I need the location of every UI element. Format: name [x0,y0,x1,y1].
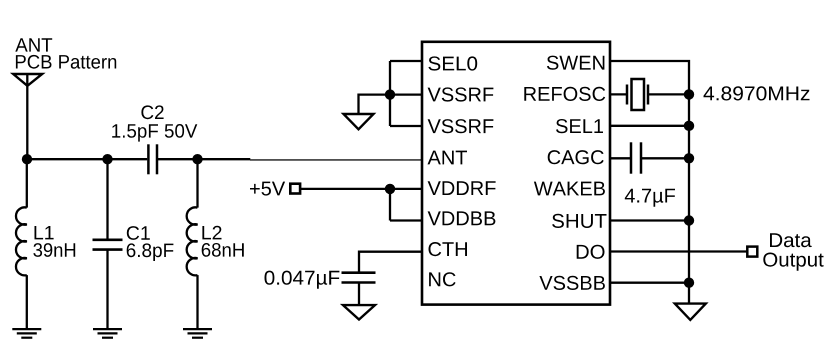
capacitor 0.047uF plates [342,273,376,283]
pin label VSSRF [428,119,494,133]
pin label ANT [428,151,468,165]
inductor L1 [16,159,27,330]
ground (earth) under L1 [12,329,41,338]
wire: VSSBB stub [610,282,689,284]
label +5V [250,182,285,196]
node bus SEL1 [684,121,694,131]
pin label SHUT [552,214,606,228]
wire: CAGC stub to cap [610,157,631,159]
label 1.5pF 50V [112,124,197,142]
pin label CAGC [548,150,604,164]
wire: main horizontal node (ANT net) [27,158,147,160]
pin label SEL0 [428,56,477,70]
node ANT/L1 [22,154,32,164]
label L1 [35,226,54,239]
wire: cap to ground [358,283,360,306]
node: +5V terminal square [290,184,300,194]
ground: CTH open triangle [343,305,375,319]
wire: SHUT stub [610,219,689,221]
ground (earth) under C1 [93,329,122,338]
wire: +5V to VDDRF [300,188,422,190]
pin label NC [429,272,456,286]
label 4.8970MHz [704,86,810,100]
pin label VDDRF [428,181,496,195]
label Data [770,233,812,247]
pin label VDDBB [428,211,496,225]
pin label VSSRF [428,87,494,101]
wire: SEL0 stub [390,60,422,62]
wire: SEL1 stub [610,125,689,127]
pin label WAKEB [534,182,605,196]
label 0.047uF [265,271,340,289]
IC U1 receiver box [422,42,610,305]
inductor L2 [187,159,198,330]
wire: C2 right to IC ANT pin [158,158,250,160]
node bus CAGC [684,153,694,163]
ground (earth) under L2 [183,329,212,338]
capacitor 4.7uF [631,142,689,173]
wire: VSSRF to ground [359,95,391,114]
node bus REFOSC [684,89,694,99]
label C2 [141,105,163,119]
wire: CTH stub [359,252,422,273]
label ANT [15,38,52,51]
wire: VDDRF/VDDBB tie vertical [389,189,391,221]
label PCB Pattern [16,55,116,69]
pin label REFOSC [524,87,605,101]
wire: thin scan segment to ANT pin [250,159,422,161]
capacitor C1 [93,159,123,330]
wire: VDDBB stub [390,219,422,221]
crystal Y1 [627,79,689,110]
node bus SHUT [684,215,694,225]
wire: REFOSC stub to crystal [610,93,627,95]
node bus VSSBB [684,278,694,288]
ground: VSSRF open triangle [344,114,374,129]
ground: bus open triangle [675,304,706,320]
pin label DO [577,245,605,259]
wire: VSSRF pin 2 stub [390,93,422,95]
node VDDRF tie [385,184,395,194]
node: Data Output terminal square [747,247,757,257]
wire: SEL0/VSSRF tie vertical [389,61,391,126]
label L2 [202,226,221,240]
antenna ANT [13,74,42,159]
wire: VSSRF pin 3 stub [390,125,422,127]
label 39nH [33,243,75,257]
wire: SWEN to bus corner [610,61,689,304]
pin label CTH [429,242,468,256]
label 68nH [202,243,244,257]
label C1 [127,226,150,240]
pin label VSSBB [539,276,605,290]
node VSSRF tie [385,89,395,99]
node L2 [192,154,202,164]
wire: DO to Data Output [610,250,747,252]
pin label SEL1 [556,119,603,133]
capacitor C2 [148,144,157,174]
label 4.7uF [625,189,675,207]
label 6.8pF [127,243,174,261]
pin label SWEN [547,56,605,70]
label Output [763,253,823,271]
node C1 [102,154,112,164]
